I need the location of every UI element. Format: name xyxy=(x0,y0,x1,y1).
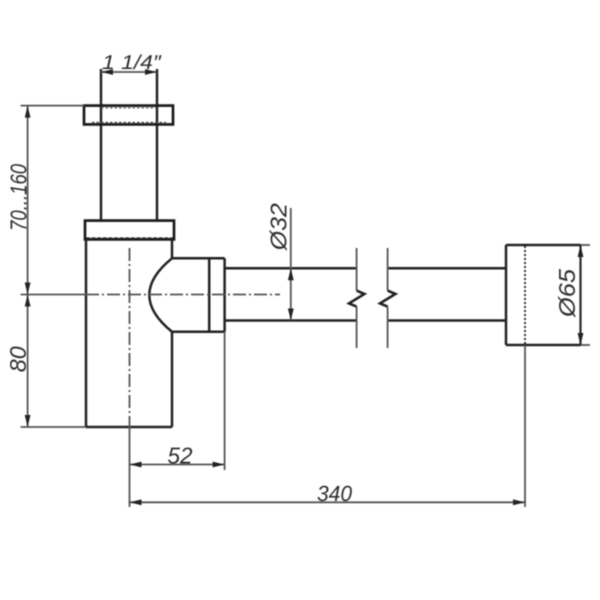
extension line wall face xyxy=(524,345,526,507)
tailpiece pipe (vertical inlet tube) xyxy=(101,69,157,221)
arrow up at pipe axis xyxy=(25,295,31,307)
wall flange edge extensions xyxy=(581,245,591,345)
top slip flange (upper nut) xyxy=(84,106,173,125)
svg-text:52: 52 xyxy=(167,442,192,468)
horizontal centerline of outlet pipe (dash-dot) xyxy=(86,294,280,296)
outlet pipe Ø32 (horizontal tube, broken) xyxy=(225,268,506,320)
extension line top flange level xyxy=(21,105,84,107)
arrow right 340 xyxy=(513,499,525,505)
dimension Ø65 line (on flange right edge) xyxy=(579,245,581,345)
arrow right of 1 1/4" xyxy=(145,69,157,75)
dimension 70...160 line xyxy=(27,106,29,295)
nut knurl line (dashed) xyxy=(86,237,173,240)
arrow left 52 xyxy=(130,462,142,468)
dimension 340 line xyxy=(130,501,526,503)
svg-text:70...160: 70...160 xyxy=(6,164,32,231)
arrow up at flange xyxy=(25,106,31,118)
svg-text:80: 80 xyxy=(5,346,31,372)
pipe break symbol right xyxy=(387,248,389,348)
outlet neck and nut xyxy=(172,258,225,331)
svg-text:Ø65: Ø65 xyxy=(554,269,580,318)
dimension 1 1/4" line xyxy=(101,71,157,73)
vertical centerline of body (dash-dot) xyxy=(129,248,131,427)
trap body (bottle cup) xyxy=(86,239,172,427)
dimension 52 line xyxy=(130,464,225,466)
svg-text:340: 340 xyxy=(317,481,353,506)
arrow up at pipe top xyxy=(288,268,294,280)
dimension Ø32 leader line xyxy=(290,208,292,321)
arrow down at flange bottom xyxy=(578,333,584,345)
arrow left of 1 1/4" xyxy=(101,69,113,75)
wall flange face (dotted joint line) xyxy=(524,246,526,344)
body centerline extension down to 340 dimension xyxy=(129,427,131,507)
arrow right 52 xyxy=(213,462,225,468)
dimension 80 line xyxy=(27,295,29,428)
arrow up at flange top xyxy=(578,245,584,257)
pipe break symbol left xyxy=(356,248,358,348)
arrow left 340 xyxy=(130,499,142,505)
arrow down at pipe axis xyxy=(25,283,31,295)
extension line body bottom level xyxy=(21,426,86,428)
body compression nut xyxy=(85,221,174,240)
wall flange Ø65 xyxy=(506,245,581,345)
svg-text:1 1/4″: 1 1/4″ xyxy=(102,52,162,74)
flange knurl line (dashed bottom texture) xyxy=(101,107,157,109)
left extension line at pipe axis xyxy=(21,294,86,296)
svg-text:Ø32: Ø32 xyxy=(266,203,292,251)
outlet dome (body side bulge) xyxy=(149,258,172,331)
extension line outlet nut end xyxy=(224,332,226,470)
arrow down at body bottom xyxy=(25,415,31,427)
arrow down at pipe bottom xyxy=(288,309,294,321)
